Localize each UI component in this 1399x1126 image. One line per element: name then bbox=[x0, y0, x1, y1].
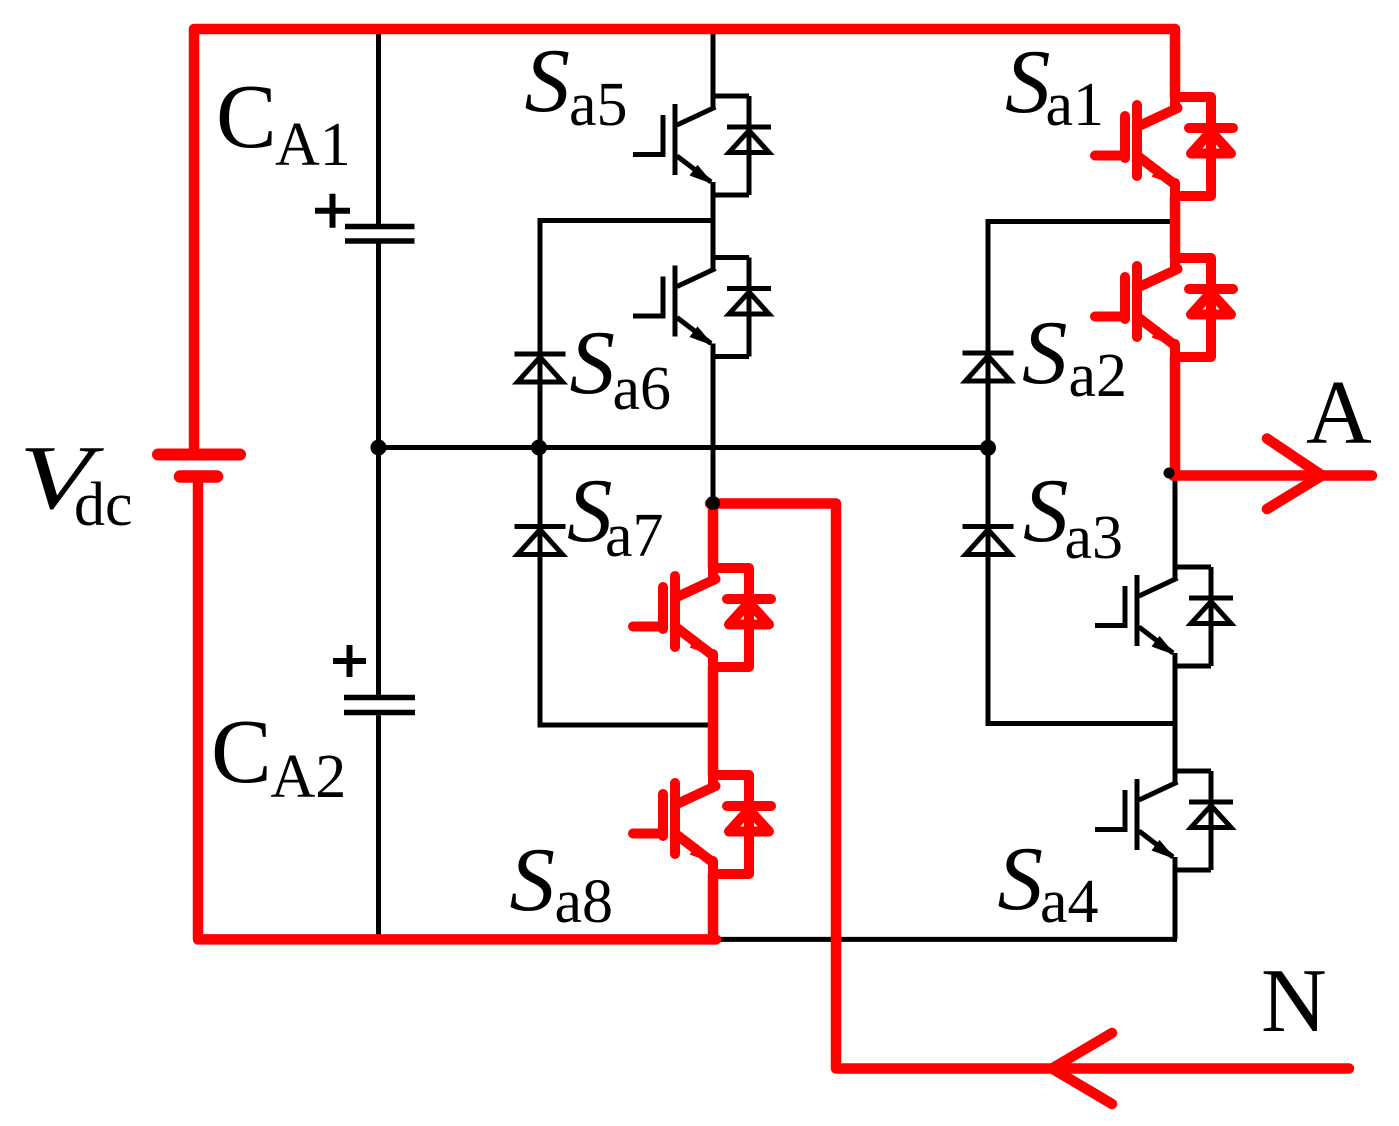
transistor Sa5 bbox=[633, 96, 771, 195]
plus sign of CA1 bbox=[315, 194, 350, 228]
wire: right column Sa4 emitter to bottom rail bbox=[1173, 870, 1178, 939]
svg-text:S: S bbox=[525, 30, 571, 131]
wire: capacitor branch vertical bbox=[376, 31, 381, 941]
clamp diode next to Sa7 label bbox=[515, 527, 566, 555]
svg-text:S: S bbox=[1005, 31, 1051, 132]
svg-text:S: S bbox=[1023, 460, 1069, 561]
wire: red middle column between red switches bbox=[708, 667, 719, 775]
wire: neutral midline bbox=[379, 445, 989, 450]
transistor Sa3 bbox=[1095, 567, 1233, 666]
svg-text:a5: a5 bbox=[569, 71, 628, 139]
node dot middle column red link bbox=[706, 496, 720, 510]
svg-text:C: C bbox=[211, 701, 272, 802]
svg-text:a1: a1 bbox=[1046, 71, 1105, 139]
svg-text:A1: A1 bbox=[275, 111, 351, 179]
wire: right column between Sa3 and Sa4 bbox=[1173, 666, 1178, 771]
node dot on capacitor branch bbox=[371, 440, 387, 456]
transistor Sa8 switch (red) bbox=[633, 775, 771, 874]
transistor Sa4 bbox=[1095, 771, 1233, 870]
transistor Sa7 switch (red) bbox=[633, 568, 771, 667]
clamp diode next to Sa3 label bbox=[963, 527, 1014, 555]
wire: inner-right branch bbox=[988, 222, 1175, 724]
wire: middle column Sa6 emitter down to red node bbox=[711, 357, 716, 504]
svg-text:A: A bbox=[1306, 362, 1372, 463]
battery Vdc long plate bbox=[158, 449, 240, 461]
wire: inner-left branch bbox=[540, 221, 713, 726]
node dot on right clamp branch bbox=[980, 440, 996, 456]
transistor Sa1 (red) bbox=[1095, 97, 1233, 196]
svg-text:a4: a4 bbox=[1040, 868, 1099, 936]
clamp diode next to Sa2 label bbox=[963, 353, 1014, 381]
wire: red middle column Sa7 collector bbox=[708, 504, 719, 569]
svg-text:A2: A2 bbox=[271, 743, 347, 811]
svg-text:dc: dc bbox=[74, 471, 133, 539]
wire: output line A bbox=[1173, 470, 1372, 481]
svg-text:a3: a3 bbox=[1065, 504, 1124, 572]
svg-text:a7: a7 bbox=[605, 502, 664, 570]
wire: middle column top stub bbox=[711, 29, 716, 96]
wire: right column between Sa1 and Sa2 bbox=[1170, 196, 1181, 258]
capacitor CA2 bbox=[344, 698, 415, 713]
arrowhead on N line bbox=[1052, 1033, 1112, 1104]
svg-text:S: S bbox=[570, 312, 616, 413]
node dot on left clamp branch bbox=[531, 440, 547, 456]
svg-text:S: S bbox=[510, 829, 556, 930]
transistor Sa6 bbox=[633, 258, 771, 357]
svg-text:S: S bbox=[1022, 302, 1068, 403]
wire: right column Sa2 emitter to node A bbox=[1170, 357, 1181, 476]
capacitor CA1 bbox=[345, 227, 415, 242]
svg-text:N: N bbox=[1261, 950, 1327, 1051]
battery Vdc short plate bbox=[180, 470, 217, 483]
svg-text:S: S bbox=[998, 828, 1044, 929]
svg-text:C: C bbox=[216, 66, 277, 167]
wire: middle column between Sa5 and Sa6 bbox=[711, 195, 716, 258]
transistor Sa2 (red) bbox=[1095, 258, 1233, 357]
svg-text:a2: a2 bbox=[1069, 342, 1128, 410]
svg-text:a8: a8 bbox=[555, 868, 614, 936]
clamp diode next to Sa6 label bbox=[515, 354, 566, 382]
plus sign of CA2 bbox=[333, 645, 366, 677]
wire: left rail below battery + bottom rail red segment bbox=[198, 481, 716, 939]
svg-text:a6: a6 bbox=[613, 355, 672, 423]
wire: red link from middle column node to N drop bbox=[710, 504, 1349, 1069]
wire: red middle column Sa8 emitter to rail bbox=[708, 874, 719, 939]
wire: top rail + left drop + right drop (red) bbox=[194, 29, 1175, 450]
arrowhead on A line bbox=[1267, 439, 1322, 510]
node dot at output A bbox=[1164, 468, 1175, 479]
wire: right column below node A bbox=[1173, 475, 1178, 567]
wire: bottom rail black segment bbox=[713, 937, 1177, 942]
